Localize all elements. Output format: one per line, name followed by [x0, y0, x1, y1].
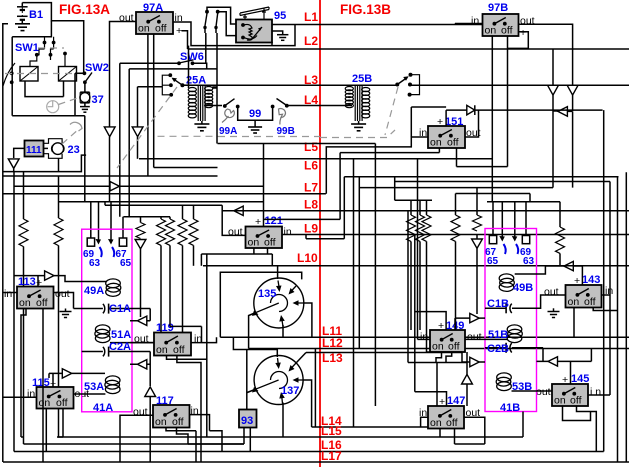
wire L11: [220, 336, 629, 338]
svg-text:SW1: SW1: [15, 42, 39, 54]
wire arm63B drop: [514, 202, 516, 237]
wire top contact 2 to 95 lower: [218, 12, 236, 36]
transformer 25B: [345, 86, 370, 121]
arc 63B: [516, 244, 518, 254]
wire bus y216.7: [123, 216, 170, 218]
wire 113 in: [3, 292, 17, 294]
rotary 135: [252, 278, 304, 328]
wire 147 off down: [454, 429, 456, 445]
svg-text:L15: L15: [321, 424, 342, 438]
wire 149 in: [418, 338, 431, 340]
svg-text:93: 93: [241, 415, 253, 427]
wire L15 riser x523: [522, 412, 524, 438]
svg-text:63: 63: [523, 256, 535, 267]
svg-text:out: out: [467, 331, 482, 343]
svg-text:137: 137: [281, 385, 299, 397]
svg-text:FIG.13B: FIG.13B: [340, 2, 391, 17]
svg-text:SW6: SW6: [180, 51, 204, 63]
wire x553 staircase down: [552, 111, 554, 188]
wire L13: [306, 352, 462, 354]
relay 143: [566, 285, 602, 308]
wire 135 bottom to L11: [282, 325, 284, 337]
wire 115 out to 53A: [74, 393, 106, 395]
relay 151: [428, 126, 465, 149]
svg-text:in: in: [27, 388, 35, 400]
wire 151 out riser: [465, 110, 479, 137]
coil 49B: [499, 274, 514, 292]
wire 137 right to L14: [303, 380, 312, 427]
diode D-B1 down: [567, 85, 578, 95]
wire pin67A drop: [122, 217, 124, 238]
svg-text:L10: L10: [297, 251, 318, 265]
svg-text:65: 65: [487, 256, 499, 267]
svg-text:on: on: [39, 397, 51, 409]
capacitor C1A: [74, 304, 151, 314]
wire bus y201.7: [59, 201, 264, 203]
wire bus y176: [4, 175, 218, 177]
diode D-A1 down: [104, 127, 115, 137]
wire D-B3 line: [567, 111, 572, 187]
diode D-113 right: [45, 271, 54, 280]
dashed boundary A: [158, 135, 219, 137]
wire 137 top feed: [233, 337, 277, 357]
wire right rail x626.3: [625, 172, 627, 462]
svg-text:in: in: [4, 288, 12, 300]
wire 97A out to left rail: [110, 22, 137, 127]
diode D-121 left: [234, 206, 243, 215]
wire x375.4 down: [374, 144, 376, 407]
svg-text:+: +: [438, 320, 444, 332]
wire B1 top to right: [22, 3, 83, 73]
wire left rail x58.5: [58, 176, 60, 218]
wire 137 upper-right to L13: [297, 353, 307, 363]
wire 99 bracket to ground: [238, 107, 273, 127]
wire bus y254: [201, 253, 272, 255]
svg-text:out: out: [520, 15, 535, 27]
resistor bank A r4: [182, 205, 184, 219]
svg-text:+: +: [574, 275, 580, 287]
wire 97A plus to L2: [182, 31, 188, 49]
wire x353.5 down: [353, 159, 355, 427]
wire top contact 1 to 95 upper: [207, 7, 236, 24]
wire D-A2 down continue: [137, 137, 139, 159]
wire 143 out: [512, 295, 566, 308]
svg-text:+: +: [437, 116, 443, 128]
wire SW1 left arm down: [11, 37, 13, 116]
relay 121: [246, 227, 283, 249]
dashed boundary B: [320, 130, 395, 138]
capacitor C2B: [485, 343, 543, 362]
wire y67.3 line: [129, 69, 217, 217]
magenta box 41A: [82, 229, 132, 412]
svg-text:on: on: [554, 395, 566, 407]
coil 53B: [496, 373, 511, 391]
svg-text:99B: 99B: [277, 126, 295, 137]
wire x553 from L2 down: [552, 49, 554, 85]
wire x603.7 down to L16: [603, 110, 605, 451]
diode D-147 up: [462, 374, 473, 384]
wire bus y362.5: [408, 362, 467, 364]
rotary 137: [252, 356, 303, 405]
wire 151 plus riser: [411, 107, 446, 137]
wire 117 off down: [177, 428, 245, 445]
wire 151 on down: [438, 148, 440, 153]
svg-text:FIG.13A: FIG.13A: [59, 2, 110, 17]
svg-text:119: 119: [156, 322, 174, 334]
svg-text:off: off: [501, 25, 513, 37]
wire arm65A drop: [110, 202, 112, 240]
wire 145 in right: [588, 394, 610, 396]
resistor bank B r2: [419, 200, 421, 215]
svg-text:L1: L1: [304, 10, 318, 24]
svg-text:off: off: [448, 341, 460, 353]
motor 37: [80, 84, 90, 103]
wire 145 off down: [577, 406, 597, 452]
wire L1: [272, 24, 483, 26]
wire 121 out: [222, 205, 245, 235]
transformer 25A selector: [162, 73, 184, 96]
dashed linkage SW1: [38, 47, 64, 49]
svg-text:+: +: [255, 216, 261, 228]
relay 147: [428, 406, 464, 429]
dashed hook 23: [62, 128, 80, 144]
wire 117 on down: [166, 428, 196, 463]
wire bus y176.8: [344, 176, 618, 178]
wire right rail x617.5: [617, 177, 619, 462]
diode D-117 up: [145, 387, 156, 397]
ground under 99: [248, 127, 262, 133]
resistor bank A r3: [169, 217, 171, 219]
svg-text:off: off: [36, 297, 48, 309]
coil 51A: [95, 325, 110, 343]
wire diode line continue: [119, 185, 263, 187]
wire y86.8 line: [138, 87, 163, 127]
resistor bank A r2: [160, 217, 162, 219]
svg-text:off: off: [56, 397, 68, 409]
arc 65B: [504, 244, 506, 254]
svg-text:L6: L6: [304, 159, 318, 173]
wire L6: [139, 158, 492, 160]
wire 147 plus: [415, 392, 447, 406]
wire L10: [203, 265, 629, 267]
arrow arm63A: [96, 239, 102, 245]
wire 135 wiper to L12: [249, 314, 254, 349]
relay 97A: [136, 12, 173, 35]
svg-text:+: +: [439, 396, 445, 408]
ground under 37: [80, 103, 90, 112]
diode D-L7 right: [110, 182, 119, 191]
relay 145: [552, 384, 588, 407]
wire 97A off down: [154, 34, 218, 168]
wire y238.7 left of red: [306, 235, 321, 239]
wire 113 off down: [42, 309, 44, 463]
diode D-B2 down: [548, 85, 559, 95]
resistor B right: [559, 202, 561, 227]
wire riser x84.8: [84, 116, 86, 202]
svg-text:off: off: [172, 416, 184, 428]
wire 97B off down: [507, 36, 509, 167]
svg-text:63: 63: [89, 258, 101, 269]
wire 149 out: [465, 338, 507, 340]
svg-text:on: on: [138, 23, 150, 35]
transformer 25A: [188, 86, 213, 121]
wire 97A in loop to L1 riser: [173, 22, 295, 46]
wire 111 left: [14, 148, 25, 158]
resistor bank A r5: [193, 205, 195, 219]
svg-text:in: in: [471, 15, 479, 27]
wire 23 bottom to bus: [58, 159, 60, 172]
wire 25A left top to selector: [182, 84, 188, 86]
wire D-115 line: [49, 372, 105, 374]
wire 93 top riser: [246, 350, 248, 410]
wire 113 plus stub: [37, 276, 39, 287]
svg-text:151: 151: [445, 116, 463, 128]
wire 25A right winding bottom to 99A: [205, 105, 222, 107]
wire L5: [218, 143, 376, 145]
relay 113: [17, 287, 54, 310]
resistor bank B r1: [410, 200, 412, 215]
wire 113 out: [54, 293, 74, 309]
wire contact2 down: [215, 28, 217, 34]
wire 117 in route: [190, 415, 223, 452]
svg-text:111: 111: [26, 145, 42, 156]
wire 147 on down: [439, 429, 441, 438]
wire pin67B drop: [492, 202, 494, 236]
svg-text:95: 95: [274, 10, 286, 22]
relay 115: [37, 387, 74, 409]
wire bus y200.3 B: [395, 177, 432, 201]
wire bus y166.6: [457, 166, 508, 168]
svg-text:53A: 53A: [84, 381, 104, 393]
wire pin69A drop: [90, 202, 92, 238]
wire L10 left riser: [200, 254, 202, 266]
wire 145 out to 53B: [512, 390, 553, 392]
svg-text:+: +: [562, 374, 568, 386]
coil 53A: [105, 376, 120, 394]
diode D-A2 down: [132, 127, 143, 137]
arc 63A: [100, 247, 102, 257]
wire D-B1 continue down: [572, 95, 574, 111]
wire D-119a line: [130, 309, 150, 321]
diode D-119b left: [137, 360, 146, 369]
svg-text:49B: 49B: [513, 282, 533, 294]
wire staircase y187.6: [359, 187, 553, 189]
wire SW6 left: [120, 62, 179, 64]
relay 119: [154, 333, 191, 357]
svg-text:41A: 41A: [93, 402, 113, 414]
dashed linkage through coils: [5, 73, 85, 75]
wire 151 in staircase: [326, 137, 428, 194]
wire pin69B drop: [525, 202, 527, 236]
pin 67A: [119, 238, 126, 246]
diode D-B5 down: [472, 239, 483, 248]
wire D-113 line: [14, 276, 107, 282]
wire 135 right to L11: [304, 303, 312, 337]
svg-text:out: out: [536, 386, 551, 398]
svg-text:on: on: [248, 237, 260, 249]
wire bus y152.6: [340, 152, 439, 154]
wire 25A right winding top to L2 riser: [212, 33, 217, 144]
lever of 95: [240, 7, 269, 20]
wire 97B plus loop: [508, 32, 529, 49]
svg-text:99A: 99A: [219, 126, 237, 137]
diode D-119a left: [137, 316, 146, 325]
svg-text:on: on: [156, 344, 168, 356]
svg-text:C2A: C2A: [109, 341, 131, 353]
wire 143 in right: [602, 294, 611, 296]
svg-text:65: 65: [120, 258, 132, 269]
wire 115 in: [3, 396, 37, 398]
arrow arm65B: [499, 236, 505, 242]
ground right of 95: [272, 31, 288, 40]
actuator arc SW1: [3, 63, 15, 86]
coil 49A: [106, 279, 121, 297]
svg-text:on: on: [430, 137, 442, 149]
diode D-149b right: [470, 357, 479, 366]
wire x119.8 down: [119, 63, 121, 216]
svg-text:off: off: [155, 23, 167, 35]
pin 69A: [87, 238, 94, 246]
wire 115 on down: [45, 409, 47, 452]
wire L12: [249, 348, 629, 350]
wire x344.3 down: [321, 177, 345, 239]
wire coils to bottom bus: [25, 81, 64, 97]
svg-text:143: 143: [582, 274, 600, 286]
svg-text:97A: 97A: [143, 2, 163, 14]
switch SW2: [83, 71, 93, 84]
coil box SW1 left: [20, 67, 38, 82]
svg-text:+: +: [520, 27, 526, 39]
wire x414.8 down: [414, 235, 416, 392]
svg-text:on: on: [430, 417, 442, 429]
wire 147 out right: [455, 417, 485, 444]
wire SW2 bracket: [75, 73, 84, 115]
svg-text:C2B: C2B: [487, 343, 509, 355]
wire L10 to 135 top: [277, 266, 279, 279]
wire bus y186.2 diode line: [14, 185, 110, 187]
wire 121 on down: [253, 248, 255, 254]
wire 147 feed: [436, 363, 438, 407]
relay 117: [153, 405, 190, 428]
wire R-left1 down: [24, 247, 245, 445]
svg-text:+: +: [36, 277, 42, 289]
svg-text:113: 113: [18, 276, 36, 288]
svg-text:121: 121: [265, 215, 283, 227]
svg-text:on: on: [432, 341, 444, 353]
wire 149 off down: [446, 352, 452, 363]
wire 93 bottom wires: [244, 428, 250, 452]
wire 137 bottom to L15: [282, 403, 284, 438]
wire 143 off down: [593, 308, 617, 311]
wire left rail x23.5: [23, 172, 25, 219]
wire right rail x610: [609, 182, 611, 396]
wire 121 off down: [267, 248, 269, 254]
dashed actuator 37: [47, 98, 79, 113]
diode D-151 right: [467, 105, 475, 115]
relay 97B: [483, 14, 519, 37]
capacitor C1B: [485, 303, 512, 313]
wire 25B left winding bottom stub: [348, 105, 350, 106]
ground under C1B wire: [548, 308, 560, 317]
svg-text:C1B: C1B: [487, 298, 509, 310]
wire L14: [312, 426, 428, 428]
svg-text:37: 37: [92, 94, 104, 106]
svg-text:out: out: [133, 406, 148, 418]
dashed linkage 25A: [117, 87, 177, 168]
ground under 25B: [351, 121, 366, 131]
magenta box 41B: [485, 229, 537, 412]
red divider line: [319, 0, 321, 467]
wire D-149b line: [432, 352, 485, 362]
pin 69B: [522, 236, 529, 244]
wire 145 plus riser: [537, 349, 592, 385]
pin 67B: [489, 236, 496, 244]
dashed linkage 25B: [385, 87, 398, 135]
diode D-A3 down: [135, 240, 146, 249]
svg-text:145: 145: [571, 373, 589, 385]
wire D-147: [466, 352, 468, 406]
arrow arm63B: [512, 236, 518, 242]
wire bus y205.3: [105, 202, 222, 206]
svg-text:41B: 41B: [500, 402, 520, 414]
wire SW6 right: [193, 63, 207, 69]
battery B1: [17, 3, 28, 24]
wire D-A1 down continue: [109, 137, 111, 202]
svg-text:out: out: [544, 286, 559, 298]
wire riser x272.3 to L10: [271, 254, 273, 266]
wire left rail x14: [13, 172, 15, 452]
wire bottom bus under SW block: [12, 115, 85, 117]
wire SW1 top bus: [12, 21, 51, 37]
wire L5 left riser x217.5 covered above: [212, 87, 217, 89]
wire 51A to 119: [110, 342, 154, 344]
svg-text:on: on: [485, 25, 497, 37]
svg-text:49A: 49A: [84, 285, 104, 297]
wire 97A on down: [147, 34, 149, 176]
svg-text:L2: L2: [304, 34, 318, 48]
dashed boundary under 99: [218, 136, 320, 138]
svg-text:off: off: [584, 296, 596, 308]
resistor bank A r1: [140, 217, 142, 223]
wire x359.3 down: [358, 177, 360, 349]
module 23 mount: [44, 139, 65, 159]
wire 117 out left: [120, 415, 153, 462]
svg-text:117: 117: [156, 395, 174, 407]
svg-text:on: on: [155, 416, 167, 428]
wire 149 plus: [415, 312, 446, 330]
resistor bank B r5: [476, 188, 478, 215]
svg-text:L8: L8: [304, 198, 318, 212]
svg-text:B1: B1: [29, 9, 43, 21]
wire 149 on down: [436, 352, 442, 363]
wire x417.5 down: [417, 159, 419, 340]
svg-text:i n: i n: [590, 386, 601, 398]
wire 25A left winding top riser: [188, 46, 190, 88]
svg-text:25B: 25B: [352, 73, 372, 85]
svg-text:L7: L7: [304, 181, 318, 195]
wire x408 down: [407, 211, 409, 363]
arrow arm65A: [108, 239, 114, 245]
svg-text:off: off: [446, 417, 458, 429]
svg-text:on: on: [19, 297, 31, 309]
diode D-115 right: [62, 369, 71, 378]
wire contact1 down to SW6: [204, 28, 207, 64]
svg-text:135: 135: [258, 288, 276, 300]
wire 119 in riser: [191, 337, 217, 342]
wire 111 right to 23: [44, 147, 49, 149]
svg-text:off: off: [173, 344, 185, 356]
wire D-149a line: [455, 318, 485, 330]
